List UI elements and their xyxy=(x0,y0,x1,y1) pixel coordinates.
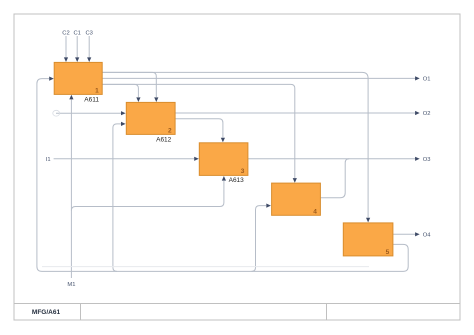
svg-text:O4: O4 xyxy=(423,232,432,238)
svg-text:A612: A612 xyxy=(156,136,172,143)
svg-text:O2: O2 xyxy=(423,111,431,117)
svg-text:2: 2 xyxy=(168,128,172,135)
svg-text:C3: C3 xyxy=(85,30,92,36)
svg-text:C2: C2 xyxy=(62,30,69,36)
svg-text:O3: O3 xyxy=(423,157,431,163)
svg-text:C1: C1 xyxy=(73,30,80,36)
svg-text:A613: A613 xyxy=(229,177,245,184)
svg-text:O1: O1 xyxy=(423,77,431,83)
svg-text:4: 4 xyxy=(313,208,317,215)
svg-text:M1: M1 xyxy=(67,282,75,288)
svg-text:1: 1 xyxy=(95,88,99,95)
svg-text:3: 3 xyxy=(241,168,245,175)
svg-text:5: 5 xyxy=(386,249,390,256)
svg-text:I1: I1 xyxy=(46,157,51,163)
svg-text:MFG/A61: MFG/A61 xyxy=(32,309,61,316)
svg-text:A611: A611 xyxy=(84,96,99,103)
